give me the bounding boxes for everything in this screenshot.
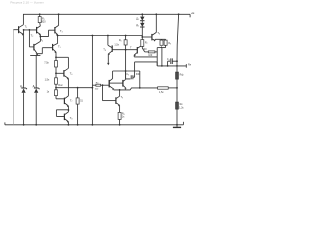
wire NPN collector riser: [112, 71, 114, 79]
diode D1: [21, 87, 27, 94]
terminal +E tick: [189, 14, 191, 17]
bottom rail: [5, 124, 184, 126]
top supply rail +E: [23, 13, 190, 15]
resistor R13 51: [76, 88, 79, 125]
node bottom rail D2: [35, 124, 37, 126]
wire T2 emitter down to mirror junction: [39, 34, 41, 36]
node mirror tie: [40, 36, 42, 38]
node T7 emitter / T8: [68, 109, 70, 111]
transistor T1: [13, 25, 23, 36]
transistor T7: [64, 96, 68, 107]
divider vertical from rail: [177, 14, 179, 125]
wire T4 collector to mirror junction: [39, 37, 41, 42]
svg-text:Т₉: Т₉: [103, 47, 106, 51]
wire bottoms drop to output: [161, 48, 163, 66]
capacitor C3 path from base node: [126, 50, 131, 79]
long wire VAS input rail: [58, 35, 143, 37]
capacitor C3: [131, 75, 134, 79]
transistor T14 lower mid: [103, 85, 120, 106]
node base of T4 riser: [29, 29, 31, 31]
resistor R7: [141, 37, 145, 52]
wire PNP collector to y71 node: [125, 71, 127, 79]
svg-text:Т₃: Т₃: [60, 29, 63, 33]
wire T8 base loop: [56, 110, 68, 117]
resistor R9 horizontal: [145, 51, 158, 53]
wire T7 emitter to node: [67, 106, 69, 110]
node long vertical top: [92, 35, 94, 37]
transistor T3: [55, 25, 59, 35]
node bottom rail R13: [77, 124, 79, 126]
svg-text:100: 100: [143, 48, 148, 51]
node T11 collector on rail: [155, 13, 157, 15]
svg-text:100: 100: [148, 54, 153, 57]
diode D3: [140, 14, 144, 20]
node R6 top: [125, 35, 127, 37]
output wire: [157, 65, 186, 67]
svg-text:Т₅: Т₅: [58, 44, 61, 48]
svg-text:Д₃: Д₃: [136, 18, 139, 21]
svg-text:Т₁: Т₁: [25, 25, 28, 29]
svg-text:Rос: Rос: [58, 84, 63, 87]
node R1 top on rail: [39, 13, 41, 15]
node y71 crossing: [125, 70, 127, 72]
resistor R8b: [164, 39, 167, 47]
node R13 top: [77, 87, 79, 89]
transistor T13 PNP output: [123, 79, 126, 89]
svg-text:Д₁: Д₁: [20, 85, 23, 88]
wire mirror tie to T3 base: [40, 30, 55, 36]
wire long vertical mid column: [91, 36, 93, 125]
node feedback junction: [92, 87, 94, 89]
node T6 base: [55, 72, 57, 74]
wire T5 emitter to chain: [55, 52, 57, 57]
node bottom rail T8: [68, 124, 70, 126]
node base riser tap: [102, 84, 104, 86]
svg-text:R₆: R₆: [119, 39, 122, 42]
node bottom rail R12: [119, 124, 121, 126]
wire T5 base step: [37, 48, 52, 56]
bottom right terminal tick: [182, 122, 184, 125]
svg-text:С₃: С₃: [126, 73, 129, 76]
svg-text:R₇: R₇: [145, 41, 148, 44]
wire chain top to T6 collector: [56, 56, 68, 58]
wire common emitter output: [114, 88, 158, 90]
wire T4 emitter to diode D2: [35, 55, 37, 87]
wire resistor bottoms: [157, 47, 165, 49]
resistor R3 1.5k: [55, 73, 58, 87]
resistor R12: [118, 112, 121, 124]
svg-text:Т₉: Т₉: [121, 96, 123, 99]
node chain top: [55, 56, 57, 58]
transistor T5: [53, 43, 58, 53]
wire diode chain junction to VAS wire: [141, 36, 143, 38]
node C3 tap on base wire: [125, 49, 127, 51]
wire T9 collector drop: [107, 36, 109, 46]
wire T9 base to T10 base: [112, 49, 137, 51]
wire VAS node y71: [113, 70, 140, 72]
resistor R14: [176, 72, 179, 79]
transistor T12 big NPN: [109, 79, 114, 91]
wire T11 base: [142, 36, 152, 38]
wire T14 emitter down: [119, 105, 121, 112]
wire feedback left segment: [56, 87, 92, 89]
transistor T6: [56, 68, 68, 79]
wire T11 emitter to resistor tops: [155, 39, 165, 40]
svg-text:Рисунок 2.10 — Усилит: Рисунок 2.10 — Усилит: [10, 0, 44, 4]
wire T6 collector up: [67, 57, 69, 68]
wire T3 emitter down to T5: [57, 35, 59, 44]
node diode chain bottom: [141, 36, 143, 38]
node divider bottom rail: [176, 124, 178, 126]
wire C3 bridge to output riser: [135, 62, 158, 77]
bottom left terminal tick: [4, 122, 6, 124]
node bottom rail column: [92, 124, 94, 126]
svg-text:Т₇: Т₇: [70, 99, 73, 103]
svg-text:R₈: R₈: [168, 42, 171, 45]
resistor R15: [176, 102, 179, 109]
wire T1 collector to rail: [22, 14, 24, 24]
wire T8 emitter to rail: [67, 122, 69, 125]
node feedback tap: [55, 87, 57, 89]
svg-text:Т₂: Т₂: [31, 34, 34, 38]
node T14 collector: [119, 89, 121, 91]
node corner on emitter wire: [139, 87, 141, 89]
resistor R8a: [160, 39, 163, 47]
svg-text:820: 820: [42, 20, 47, 23]
node divider output: [176, 65, 178, 67]
capacitor C4 riser: [168, 61, 170, 66]
wire D1 to bottom rail: [23, 93, 25, 124]
svg-text:+Е: +Е: [191, 11, 195, 15]
wire D2 to bottom rail: [35, 93, 37, 124]
resistor R10 horizontal Roc: [92, 84, 109, 86]
node divider feedback: [176, 87, 178, 89]
resistor R2 7.5k: [55, 57, 58, 73]
svg-text:Д₄: Д₄: [136, 24, 139, 27]
input line (light): [12, 30, 14, 125]
resistor R11 horizontal feedback right: [158, 87, 177, 89]
svg-text:Т₈: Т₈: [70, 116, 73, 120]
transistor T8 diode-connected: [64, 112, 68, 123]
wire T1 emitter down to diode D1: [23, 34, 25, 87]
node T1 emitter / T2 base: [23, 29, 25, 31]
arrow free end: [107, 63, 109, 65]
transistor T10: [134, 46, 141, 56]
wire T10 emitter down and right: [134, 55, 157, 57]
node C4 riser: [167, 65, 169, 67]
node diode chain on rail: [141, 13, 143, 15]
svg-text:Т₆: Т₆: [70, 71, 73, 75]
transistor T11: [152, 32, 156, 41]
node output riser: [161, 65, 163, 67]
svg-text:Т₈: Т₈: [157, 31, 160, 35]
transistor T9: [108, 45, 112, 55]
capacitor C4: [171, 58, 177, 64]
wire T4 emitter bar: [30, 54, 40, 56]
wire T1 emitter to T2 base: [24, 30, 37, 35]
output terminal tick: [185, 64, 187, 68]
node divider on rail: [178, 13, 180, 15]
wire T14 collector to emitter line: [119, 90, 121, 96]
wire T9 emitter arrow stub: [107, 54, 109, 63]
svg-text:Rф: Rф: [180, 73, 184, 76]
wire T8 collector: [67, 110, 69, 112]
wire y71 corner down to output wire: [139, 71, 141, 88]
resistor R1: [38, 14, 41, 26]
node VAS wire start: [57, 35, 59, 37]
wire riser to T4 base: [28, 30, 30, 47]
svg-text:С₄: С₄: [167, 58, 170, 61]
node bottom rail D1: [23, 124, 25, 126]
wire right riser: [156, 48, 158, 66]
node divider C4: [176, 60, 178, 62]
diode D4: [140, 21, 144, 37]
wire T6 emitter to T7 collector: [67, 78, 69, 96]
resistor R6: [124, 36, 127, 50]
resistor R4 1k: [55, 88, 65, 99]
svg-text:Д₂: Д₂: [33, 85, 36, 88]
wire T11 collector to rail: [155, 14, 157, 32]
transistor T4: [29, 41, 40, 55]
wire base tie between output pair: [109, 82, 123, 84]
wire T3 collector to rail: [58, 14, 60, 25]
diode D2: [34, 87, 40, 94]
node T3 collector on rail: [58, 13, 60, 15]
node T9 collector tap: [107, 35, 109, 37]
ground symbol: [176, 125, 178, 127]
transistor T2: [37, 26, 41, 36]
